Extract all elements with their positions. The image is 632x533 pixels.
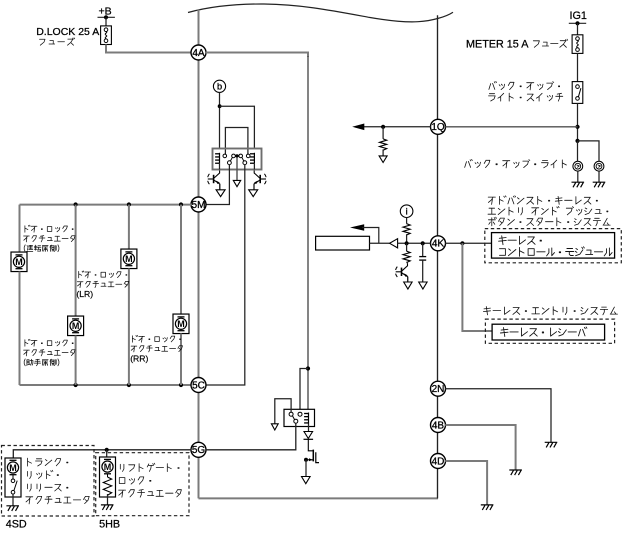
label door lock actuator LR line1	[79, 271, 127, 278]
label trunk line1	[28, 458, 68, 466]
relay box lower	[284, 409, 315, 426]
node 4A	[191, 45, 206, 60]
label backup light switch line1	[489, 81, 560, 90]
wire relay inner loop contact1 to contact4	[225, 128, 248, 155]
wire 4A horizontal feed	[206, 53, 308, 58]
motor door lock actuator driver side	[11, 252, 27, 271]
ground trunk actuator	[6, 506, 19, 511]
wire 1Q to backup switch column	[445, 126, 577, 128]
junction +B	[104, 15, 108, 19]
node 5C	[191, 378, 206, 393]
box keyless receiver	[492, 324, 604, 340]
wire IG1 to fuse	[577, 23, 579, 35]
junction 5G liftgate	[105, 448, 109, 452]
svg-text:M: M	[9, 463, 17, 473]
dashed box liftgate lock actuator (5HB)	[96, 453, 189, 516]
svg-text:METER 15 A: METER 15 A	[466, 38, 529, 50]
wire lower coil to diode	[308, 424, 310, 432]
junction FET source	[304, 458, 308, 462]
wire column passenger upper	[75, 205, 77, 316]
svg-text:(LR): (LR)	[76, 289, 93, 299]
node 4B	[431, 418, 446, 433]
wire 5G bus to trunk actuator	[13, 450, 191, 458]
wire +B bus bar	[98, 16, 115, 18]
dashed box keyless control module	[485, 229, 622, 263]
node 5M	[191, 197, 206, 212]
junction b branch	[218, 104, 222, 108]
trunk actuator inner box	[5, 458, 21, 497]
wire b to left relay coil	[219, 92, 221, 148]
wire column passenger lower	[75, 336, 77, 386]
relay coil left	[215, 153, 219, 164]
wire Q2 emitter to ground	[253, 184, 255, 190]
junction top bus col2	[74, 202, 78, 206]
wire IG1 bus bar	[569, 22, 586, 24]
ground arrow Q1	[216, 190, 225, 197]
wire right bulb to ground	[598, 171, 600, 182]
wire lower relay hook to ground arrow	[275, 399, 291, 424]
label keyless module line1	[499, 236, 542, 245]
wire 4B to ground	[445, 425, 515, 470]
svg-text:M: M	[72, 321, 80, 331]
svg-text:i: i	[406, 207, 408, 217]
wire column LR lower	[128, 269, 130, 386]
dashed box trunk lid release actuator (4SD)	[2, 446, 95, 517]
svg-text:5G: 5G	[192, 445, 206, 456]
junction 1Q line backup	[575, 125, 579, 129]
transistor FET lower	[306, 439, 319, 462]
wire Q3 emitter to ground	[407, 277, 409, 282]
svg-text:M: M	[104, 462, 112, 472]
junction 4K r1	[405, 241, 409, 245]
arrow signal up-left filled	[350, 224, 379, 243]
svg-text:D.LOCK 25 A: D.LOCK 25 A	[36, 26, 99, 38]
wire resistor to ground arrow	[382, 149, 384, 156]
motor trunk lid release	[7, 460, 18, 474]
wire left coil to Q1 collector	[219, 164, 221, 170]
junction 4K cap	[421, 241, 425, 245]
wire to left bulb	[577, 141, 579, 161]
switch trunk actuator	[11, 475, 17, 494]
diode lower	[304, 432, 314, 440]
wire open arrow to 4K	[398, 242, 431, 244]
label advanced keyless line2	[488, 207, 608, 216]
arrow signal left at 1Q	[352, 124, 364, 131]
junction top bus col4	[179, 202, 183, 206]
ground arrow relay center	[233, 180, 240, 186]
wire column driver side	[19, 205, 21, 252]
label liftgate line3	[119, 490, 182, 498]
fuse D.LOCK 25A	[101, 26, 112, 45]
motor door lock actuator RR	[173, 314, 189, 334]
label door lock actuator passenger line1	[25, 339, 73, 346]
wire backup switch to 1Q line	[577, 103, 579, 140]
wire 1Q branch to resistor	[382, 127, 384, 139]
transistor Q3 at 4K	[396, 263, 408, 282]
label door lock actuator driver line1	[25, 225, 73, 232]
label door lock actuator RR line1	[132, 335, 180, 342]
label advanced keyless line3	[488, 217, 610, 226]
wire 1Q left signal	[362, 126, 431, 128]
label trunk line3	[28, 484, 68, 491]
svg-text:(RR): (RR)	[130, 354, 148, 364]
ground back-up light right	[593, 182, 606, 187]
wire keyless branch to receiver	[462, 243, 492, 331]
wire box to open arrow	[370, 242, 390, 244]
page-break squiggle line	[188, 4, 453, 22]
connector circle b	[213, 80, 225, 92]
label liftgate line1	[120, 463, 179, 471]
label keyless module line2	[500, 247, 613, 256]
wire 2N to ground	[445, 389, 551, 442]
label door lock actuator driver line2	[24, 236, 76, 242]
wire branch to relay contact	[300, 369, 308, 413]
transistor Q2 right relay driver	[254, 171, 266, 190]
label back-up light	[465, 159, 567, 168]
motor liftgate lock	[102, 459, 113, 473]
resistor below i	[403, 224, 410, 235]
relay box (door lock relay)	[213, 149, 262, 170]
relay coil right	[250, 153, 254, 164]
wire to right bulb	[578, 141, 600, 161]
wire resistor to 4K line	[406, 234, 408, 243]
label door lock actuator passenger line2	[24, 350, 76, 356]
ground arrow Q3	[404, 282, 412, 289]
wire Q1 emitter to ground	[219, 184, 221, 190]
wire capacitor to ground	[422, 260, 424, 282]
relay contacts	[223, 154, 250, 165]
ground arrow lower relay contact	[271, 424, 278, 430]
label trunk line2	[28, 470, 59, 478]
ground arrow 1Q branch	[379, 156, 387, 163]
svg-text:IG1: IG1	[570, 10, 587, 22]
open arrow into 4K line	[390, 239, 398, 248]
label METER fuse katakana	[533, 39, 567, 47]
label D.LOCK fuse katakana	[40, 38, 75, 45]
transistor Q1 left relay driver	[208, 171, 220, 190]
wire relay lower-right contact to 5C	[206, 165, 245, 385]
wire column LR upper	[128, 205, 130, 249]
wire column RR lower	[180, 334, 182, 386]
wire i to resistor	[406, 218, 408, 224]
label door lock actuator driver line3	[24, 245, 59, 252]
svg-text:M: M	[125, 254, 133, 264]
ground 4D	[481, 505, 494, 510]
wire trunk switch to ground	[12, 494, 14, 506]
relay coil lower	[304, 413, 308, 424]
wire liftgate to ground	[107, 494, 109, 505]
node 4K	[431, 236, 446, 251]
junction lower relay feed	[306, 366, 310, 370]
wire column RR upper	[180, 205, 182, 314]
box keyless control module	[492, 233, 615, 259]
wire fuse to 4A	[106, 45, 191, 53]
wire bottom loop from 5G to right main line	[199, 497, 439, 499]
svg-text:4B: 4B	[432, 420, 445, 431]
capacitor at 4K	[419, 257, 426, 261]
junction IG1	[575, 21, 579, 25]
svg-text:4K: 4K	[432, 239, 445, 250]
resistor liftgate actuator	[107, 474, 109, 477]
connector circle i	[400, 205, 413, 218]
wire left main vertical from squiggle through 4A 5M 5C 5G to bottom loop	[198, 10, 200, 499]
junction 1Q branch	[381, 125, 385, 129]
node 2N	[431, 381, 446, 396]
svg-text:4SD: 4SD	[6, 518, 27, 530]
junction top bus col3	[127, 202, 131, 206]
ground 2N	[545, 442, 558, 447]
wire relay lower-left contact to 5M	[206, 165, 230, 205]
ground back-up light left	[572, 182, 585, 187]
svg-text:1Q: 1Q	[431, 122, 445, 133]
resistor liftgate zigzag	[103, 477, 111, 495]
junction backup lights	[575, 139, 579, 143]
label keyless entry system	[483, 307, 617, 315]
label door lock actuator RR line2	[131, 346, 182, 352]
node 4D	[431, 454, 446, 469]
svg-text:5M: 5M	[192, 200, 206, 211]
label trunk line4	[26, 496, 89, 504]
wire 4A to lower relay feed vertical	[307, 56, 309, 409]
ground liftgate actuator	[101, 505, 114, 510]
wire actuator bottom bus	[20, 384, 192, 386]
junction keyless branch	[460, 241, 464, 245]
label door lock actuator passenger line3	[24, 359, 59, 366]
label keyless receiver	[500, 327, 587, 337]
junction bottom bus col2	[74, 383, 78, 387]
lamp back-up light right	[594, 161, 604, 171]
wire +B to fuse	[105, 17, 107, 26]
wire relay common center to arrow ground	[236, 158, 238, 181]
dashed box keyless receiver	[485, 319, 614, 343]
label backup light switch line2	[489, 93, 563, 101]
resistor 1Q pulldown	[380, 139, 387, 150]
svg-text:2N: 2N	[432, 384, 445, 395]
node 5G	[191, 442, 206, 457]
label advanced keyless line1	[488, 196, 597, 205]
wire 4K to keyless module	[445, 242, 491, 244]
wire to lower resistor	[406, 243, 408, 251]
label door lock actuator LR line2	[77, 281, 129, 287]
junction bottom bus col3	[127, 383, 131, 387]
switch back-up light switch	[572, 82, 583, 104]
wire actuator top bus	[20, 204, 192, 206]
junction bottom bus col4	[179, 383, 183, 387]
liftgate actuator inner box	[100, 457, 116, 497]
wire 4D to ground	[445, 461, 487, 505]
motor door lock actuator LR	[121, 249, 137, 268]
svg-text:M: M	[177, 319, 185, 329]
svg-text:4A: 4A	[192, 48, 205, 59]
svg-text:M: M	[15, 257, 23, 267]
motor door lock actuator passenger side	[68, 316, 84, 336]
resistor below 4K line	[403, 251, 410, 262]
long connector box	[316, 236, 370, 250]
node 1Q	[431, 119, 446, 134]
svg-text:b: b	[217, 82, 222, 92]
fuse METER 15A	[572, 35, 583, 54]
wire capacitor top	[422, 243, 424, 256]
ground arrow capacitor	[419, 282, 427, 289]
ground arrow Q2	[249, 190, 258, 197]
svg-text:4D: 4D	[432, 456, 445, 467]
wire right main vertical from squiggle through 1Q 4K 2N 4B 4D	[437, 15, 439, 498]
lamp back-up light left	[573, 161, 583, 171]
ground arrow FET	[302, 477, 311, 484]
svg-text:5C: 5C	[192, 380, 205, 391]
svg-text:5HB: 5HB	[99, 518, 120, 530]
wire FET to ground arrow	[305, 460, 307, 477]
wire junction to liftgate motor	[106, 450, 108, 457]
wire left bulb to ground	[577, 171, 579, 182]
wire column driver side lower	[19, 272, 21, 386]
wire right coil to Q2 collector	[253, 164, 255, 170]
wire lower relay common to 5G	[206, 423, 296, 450]
lower relay contacts	[289, 412, 302, 423]
wire Q3 collector stub	[406, 262, 409, 264]
wire b branch to right relay coil	[220, 106, 255, 148]
ground 4B	[509, 470, 522, 475]
label liftgate line2	[119, 477, 151, 484]
wire fuse to backup switch	[577, 53, 579, 81]
